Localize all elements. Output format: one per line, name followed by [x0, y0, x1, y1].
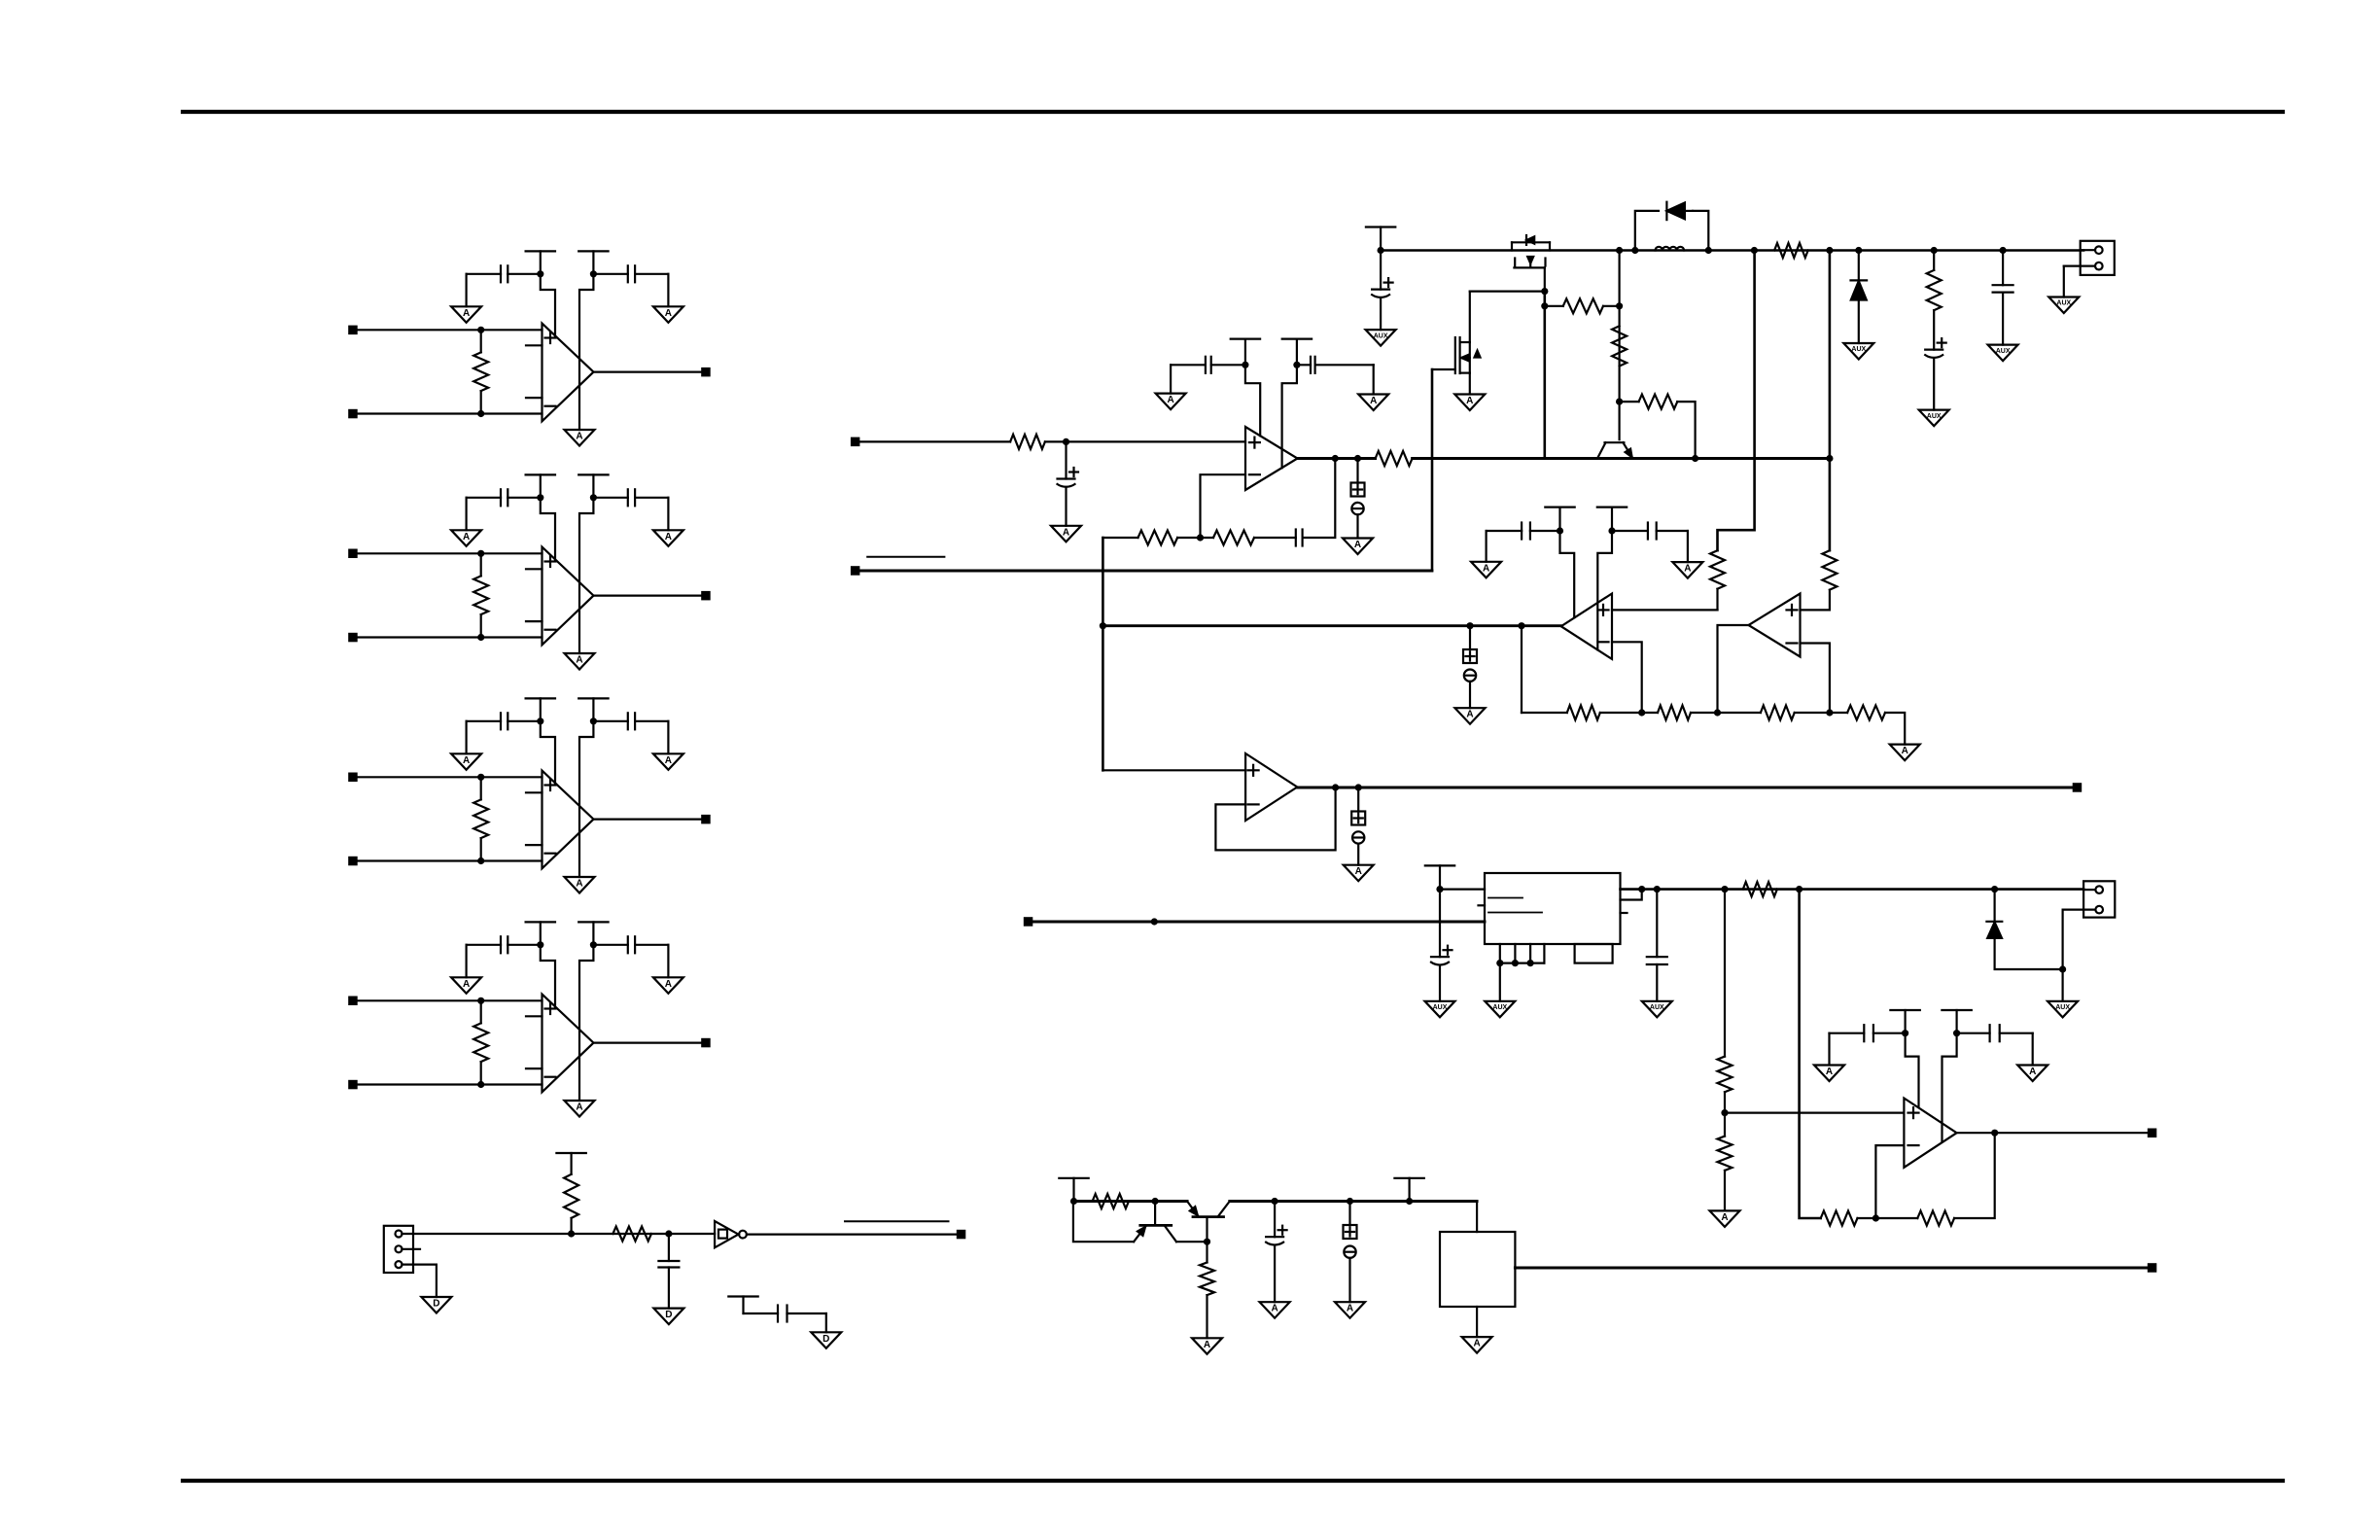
svg-text:A: A — [463, 532, 470, 542]
svg-text:AUX: AUX — [1433, 1004, 1448, 1011]
svg-text:A: A — [665, 755, 672, 766]
svg-text:D: D — [665, 1310, 672, 1320]
svg-text:AUX: AUX — [1492, 1004, 1507, 1011]
svg-text:A: A — [665, 308, 672, 319]
svg-text:A: A — [576, 1102, 582, 1113]
svg-text:AUX: AUX — [1851, 346, 1866, 353]
svg-text:A: A — [1354, 540, 1361, 550]
svg-text:A: A — [1167, 395, 1173, 405]
svg-text:A: A — [1271, 1304, 1277, 1314]
svg-text:A: A — [576, 432, 582, 442]
svg-text:A: A — [1902, 746, 1908, 756]
svg-text:A: A — [1826, 1067, 1833, 1077]
svg-text:A: A — [576, 879, 582, 890]
svg-text:AUX: AUX — [1650, 1004, 1664, 1011]
svg-text:A: A — [1466, 396, 1473, 406]
svg-text:A: A — [665, 979, 672, 990]
svg-text:A: A — [2029, 1067, 2036, 1077]
svg-text:A: A — [463, 308, 470, 319]
svg-text:A: A — [665, 532, 672, 542]
svg-text:A: A — [1684, 564, 1691, 575]
svg-text:A: A — [1466, 710, 1473, 720]
svg-text:A: A — [1063, 527, 1069, 538]
svg-text:A: A — [1355, 866, 1362, 877]
svg-text:A: A — [576, 655, 582, 666]
svg-text:A: A — [1721, 1212, 1728, 1223]
svg-text:AUX: AUX — [2056, 300, 2071, 307]
svg-text:A: A — [1347, 1304, 1353, 1314]
svg-text:A: A — [1473, 1339, 1480, 1349]
svg-text:D: D — [433, 1299, 439, 1310]
svg-text:A: A — [1483, 563, 1489, 574]
svg-text:A: A — [1204, 1340, 1210, 1350]
svg-text:AUX: AUX — [1927, 413, 1942, 420]
svg-text:D: D — [822, 1334, 829, 1345]
svg-text:A: A — [1370, 396, 1377, 406]
svg-text:AUX: AUX — [1996, 348, 2011, 355]
svg-text:AUX: AUX — [1374, 332, 1388, 339]
svg-text:A: A — [463, 755, 470, 766]
svg-text:A: A — [463, 979, 470, 990]
svg-text:AUX: AUX — [2055, 1004, 2070, 1011]
